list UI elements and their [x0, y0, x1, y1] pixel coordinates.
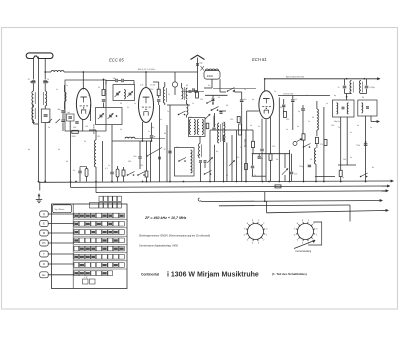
coil L11: [315, 148, 317, 182]
svg-text:40: 40: [276, 159, 278, 161]
coil L4: [51, 70, 64, 72]
svg-text:Gemeinsame Apparatebelag: UKW: Gemeinsame Apparatebelag: UKW: [139, 245, 179, 248]
resistor R8: [283, 111, 286, 117]
coil L6: [163, 82, 166, 105]
svg-text:Störfestgemessen: EM3/V (Klemm: Störfestgemessen: EM3/V (Klemmenspannung…: [139, 235, 210, 238]
coil tap bracket: [32, 102, 35, 123]
svg-text:1n: 1n: [192, 103, 194, 105]
component value labels: [56, 89, 374, 169]
svg-text:150: 150: [150, 89, 153, 91]
wire: [288, 150, 290, 182]
svg-text:80: 80: [362, 97, 364, 99]
svg-text:40: 40: [312, 117, 314, 119]
wire dense verticals: [210, 113, 246, 182]
capacitor C25b: [258, 154, 264, 160]
terminal T2 out: [371, 116, 380, 123]
wire: [145, 71, 147, 87]
wafer2 frame: [308, 222, 322, 245]
capacitor C30: [299, 165, 311, 168]
tube V1 ECC85a: [76, 88, 90, 119]
svg-text:120: 120: [272, 146, 275, 148]
capacitor C7b: [73, 122, 79, 129]
capacitor C1: [28, 79, 36, 83]
switch S2: [206, 100, 214, 104]
svg-text:7n: 7n: [338, 87, 340, 89]
wire T2 down: [365, 116, 367, 182]
wire T1 down: [340, 117, 342, 170]
capacitor C29: [301, 105, 305, 134]
svg-text:6p: 6p: [28, 149, 30, 151]
svg-text:Ph: Ph: [42, 241, 46, 245]
rotary switch wafer S11: [294, 220, 318, 244]
wire: [252, 154, 266, 182]
terminal: [391, 180, 394, 183]
coil small: [125, 137, 165, 138]
svg-text:ECC 85: ECC 85: [109, 58, 124, 63]
variable capacitor C10: [98, 113, 104, 119]
svg-text:5n: 5n: [240, 147, 242, 149]
svg-text:1n: 1n: [370, 127, 372, 129]
resistor R15b: [122, 167, 125, 182]
svg-text:8n: 8n: [372, 167, 374, 169]
capacitor C15: [150, 123, 157, 142]
resistor R3: [196, 92, 199, 98]
svg-text:130: 130: [97, 136, 100, 138]
node: [142, 140, 153, 142]
node: [346, 78, 366, 80]
svg-text:7k: 7k: [274, 91, 276, 93]
svg-text:3k: 3k: [306, 95, 308, 97]
terminal: [386, 189, 389, 192]
coil L7a: [190, 120, 191, 135]
svg-text:Sp.-Werte: Sp.-Werte: [55, 208, 66, 211]
wire: [204, 79, 220, 92]
coil L7c: [197, 120, 198, 135]
wire fm feed: [220, 91, 226, 93]
svg-text:Continental: Continental: [141, 272, 159, 276]
wire bus4: [198, 198, 381, 202]
svg-text:ECH 81: ECH 81: [252, 57, 267, 62]
table header box: [53, 205, 72, 213]
capacitor C30b: [338, 79, 352, 94]
label: [286, 76, 305, 79]
svg-text:9n: 9n: [350, 157, 352, 159]
svg-text:130: 130: [230, 119, 233, 121]
terminal boxes: [40, 211, 49, 278]
capacitor C7c: [102, 100, 105, 101]
capacitor row91: [183, 91, 204, 92]
svg-text:14p: 14p: [113, 78, 116, 80]
resistor R2: [157, 82, 160, 98]
svg-text:AM 0,52-1,6 MHz: AM 0,52-1,6 MHz: [138, 68, 155, 71]
box tuner 1: [113, 85, 135, 101]
label band: [138, 68, 155, 71]
table row wires: [74, 220, 127, 269]
label Ferneinstellung: [296, 250, 312, 253]
wire: [278, 98, 280, 182]
electrolytic C22: [239, 124, 242, 135]
svg-text:150: 150: [286, 119, 289, 121]
capacitor C5: [58, 109, 65, 112]
svg-text:1n: 1n: [286, 129, 288, 131]
coil L5: [65, 85, 67, 110]
wire osc row: [252, 153, 290, 155]
svg-text:7k: 7k: [168, 94, 170, 96]
resistor R12: [0, 0, 1, 1]
terminal: [377, 77, 380, 80]
coil L10: [317, 101, 319, 136]
ground table: [36, 194, 42, 203]
svg-text:1n: 1n: [108, 165, 110, 167]
wire: [34, 105, 39, 124]
capacitor C36: [134, 141, 142, 169]
terminal: [380, 199, 383, 202]
ratio detector box: [189, 118, 206, 137]
svg-text:40p: 40p: [58, 109, 61, 111]
label ZF: [144, 216, 187, 220]
wire: [34, 84, 46, 92]
svg-text:AFC/UKW: AFC/UKW: [93, 123, 96, 134]
wire row2: [102, 141, 104, 182]
vertical label ELC: [245, 138, 247, 147]
IF T1 primary coil: [350, 81, 353, 94]
resistor R1b: [102, 90, 105, 96]
electrolytic C34b: [116, 166, 119, 182]
capacitor C14b: [212, 116, 215, 130]
resistor R10: [315, 137, 318, 147]
wire antenna right stem: [44, 59, 46, 80]
rotary switch wafer S10: [244, 220, 268, 244]
svg-text:9n: 9n: [222, 123, 224, 125]
svg-text:120: 120: [200, 99, 203, 101]
capacitor C6 boxed: [67, 112, 75, 121]
capacitor C27: [282, 99, 285, 111]
electrolytic C33b: [80, 167, 88, 182]
switch S7: [303, 144, 311, 148]
antenna FM dipole: [191, 55, 205, 92]
svg-text:5n: 5n: [250, 125, 252, 127]
svg-text:20n: 20n: [134, 156, 137, 158]
svg-text:2p: 2p: [120, 129, 122, 131]
node dots bus: [44, 181, 366, 183]
coil L1: [32, 91, 35, 105]
capacitor C12: [106, 78, 134, 82]
svg-text:1n: 1n: [350, 132, 352, 134]
wire: [265, 120, 267, 154]
svg-text:2p: 2p: [208, 85, 210, 87]
capacitor C19: [240, 92, 247, 182]
wire antenna left stem: [33, 59, 35, 80]
svg-text:1n: 1n: [148, 131, 150, 133]
svg-text:0,5Mp: 0,5Mp: [370, 87, 375, 89]
terminal wires: [48, 214, 74, 275]
svg-text:ZF = 460 kHz + 10,7 MHz: ZF = 460 kHz + 10,7 MHz: [144, 216, 187, 220]
svg-text:4n: 4n: [297, 126, 299, 128]
diode D1: [172, 72, 177, 95]
svg-text:6p: 6p: [216, 151, 218, 153]
svg-text:7n: 7n: [167, 111, 169, 113]
box UKW unit: [65, 80, 106, 131]
svg-text:110: 110: [140, 165, 143, 167]
resistor R6b: [245, 130, 248, 182]
tube V3 ECH81: [259, 91, 274, 119]
table top cells: [90, 196, 122, 208]
capacitor C6b: [61, 120, 64, 131]
label line1: [139, 235, 210, 238]
capacitor C14: [193, 88, 194, 91]
svg-text:240Ω: 240Ω: [207, 75, 213, 78]
variable capacitor C8: [115, 91, 121, 97]
wire: [0, 0, 1, 1]
IF transformer T0: [182, 83, 188, 100]
svg-text:3k: 3k: [98, 87, 100, 89]
IF T2 primary coil: [359, 81, 362, 94]
svg-text:2p: 2p: [88, 95, 90, 97]
capacitor C4: [196, 63, 204, 66]
svg-text:170: 170: [320, 144, 323, 146]
svg-text:AM 12500 kHz/LW: AM 12500 kHz/LW: [286, 76, 305, 79]
svg-text:80: 80: [186, 85, 188, 87]
svg-text:100: 100: [73, 127, 76, 129]
capacitor C17b: [197, 155, 207, 162]
wire bus3: [96, 182, 388, 201]
switch S1: [178, 111, 186, 115]
capacitor C18: [212, 95, 215, 105]
table frame: [52, 204, 128, 289]
coil L12: [89, 130, 96, 182]
svg-text:i 1306 W Mirjam Musiktruhe: i 1306 W Mirjam Musiktruhe: [167, 272, 259, 279]
wire bus AM right: [264, 78, 380, 80]
coil L2: [32, 107, 35, 120]
wire bus6: [267, 201, 388, 213]
node: [38, 71, 47, 182]
label: [140, 85, 156, 87]
svg-text:140: 140: [331, 125, 334, 127]
coil L7d: [202, 120, 203, 135]
svg-text:40: 40: [120, 103, 122, 105]
svg-text:750p: 750p: [299, 166, 303, 168]
label subtitle: [272, 272, 307, 276]
svg-text:Ferneinstellung: Ferneinstellung: [296, 250, 312, 253]
svg-text:1n0: 1n0: [294, 174, 297, 176]
svg-text:80: 80: [164, 133, 166, 135]
svg-text:6n: 6n: [357, 125, 359, 127]
wire tube2 leads: [142, 122, 144, 141]
svg-text:40: 40: [226, 105, 228, 107]
varcap C26b: [282, 154, 288, 182]
antenna AM: [26, 53, 53, 59]
svg-text:160: 160: [343, 159, 346, 161]
test point: [293, 138, 303, 145]
IF T1 box: [333, 100, 355, 123]
label line2: [139, 245, 179, 248]
terminal: [387, 185, 390, 188]
node: [103, 79, 118, 117]
tube V2 ECC85b: [139, 88, 154, 123]
wire main ground bus: [39, 181, 393, 182]
box band switch: [175, 148, 195, 177]
capacitor C3 box: [41, 106, 50, 182]
varcap C23: [207, 157, 213, 163]
resistor R13: [339, 170, 342, 181]
switch S5: [211, 107, 219, 111]
coil L8 osc: [218, 123, 221, 143]
svg-text:7k: 7k: [254, 175, 256, 177]
wire: [247, 111, 259, 130]
switch S6: [235, 90, 242, 93]
wire: [205, 89, 256, 96]
wire verticals: [151, 105, 171, 182]
capacitor C2: [43, 79, 50, 83]
wire: [210, 129, 253, 131]
svg-text:5n: 5n: [73, 170, 75, 172]
svg-text:100: 100: [189, 117, 192, 119]
svg-text:5n: 5n: [326, 103, 328, 105]
svg-text:3n: 3n: [58, 149, 60, 151]
coil L14: [198, 136, 201, 158]
svg-text:7n: 7n: [308, 121, 310, 123]
svg-text:2p: 2p: [298, 111, 300, 113]
capacitor C26c: [290, 154, 297, 182]
wire: [82, 71, 84, 89]
resistor R16: [145, 141, 148, 182]
svg-text:⊥P: ⊥P: [84, 276, 88, 279]
svg-text:12,5M: 12,5M: [150, 85, 156, 87]
label title: [167, 272, 259, 279]
svg-text:180: 180: [128, 161, 131, 163]
resistor R5: [237, 117, 240, 123]
capacitor C17: [164, 149, 172, 153]
variable capacitor C9: [127, 91, 133, 97]
svg-text:0,1: 0,1: [295, 99, 298, 101]
svg-text:3k: 3k: [84, 141, 86, 143]
wire: [0, 0, 1, 1]
box tuner 2: [96, 108, 123, 125]
wire: [264, 79, 266, 91]
svg-text:5p0: 5p0: [67, 112, 70, 114]
svg-text:0,1: 0,1: [105, 168, 108, 170]
trimmer arrows: [48, 119, 61, 123]
wire: [153, 81, 159, 83]
capacitor C25c: [251, 154, 254, 177]
vertical label AFC/UKW: [93, 123, 96, 134]
svg-text:5n: 5n: [134, 103, 136, 105]
ground main: [39, 182, 41, 191]
resistor R17: [275, 185, 281, 188]
wire bus5: [219, 205, 350, 222]
svg-text:Q: Q: [43, 212, 45, 216]
wire top bus: [45, 71, 197, 73]
wire bus2: [70, 131, 389, 187]
table grid cells: [73, 204, 124, 289]
switch S8: [360, 173, 368, 177]
varcap C24: [229, 160, 235, 166]
svg-text:80: 80: [226, 175, 228, 177]
svg-text:5n: 5n: [48, 127, 50, 129]
IF T2 box: [358, 100, 377, 116]
resistor R1: [72, 130, 79, 138]
row components on bus: [0, 0, 1, 1]
label ECC 85: [109, 58, 124, 63]
wire: [315, 176, 335, 178]
svg-text:0,5L: 0,5L: [140, 85, 144, 87]
capacitor C28: [291, 96, 297, 131]
varcap C21: [205, 114, 211, 120]
svg-text:80: 80: [280, 107, 282, 109]
svg-text:170: 170: [176, 147, 179, 149]
label ECH 81: [252, 57, 267, 62]
label: [350, 132, 352, 134]
capacitor C33: [73, 169, 82, 182]
svg-text:10: 10: [164, 149, 166, 151]
capacitor C34: [105, 141, 114, 182]
svg-text:50p 5p: 50p 5p: [334, 121, 340, 123]
coil L7b: [194, 120, 195, 135]
svg-text:40: 40: [66, 161, 68, 163]
svg-text:2000: 2000: [72, 136, 76, 138]
resistor R7: [269, 117, 272, 182]
svg-text:3n: 3n: [214, 124, 216, 126]
capacitor C20: [220, 112, 223, 114]
balun 240 ohm: [201, 66, 221, 79]
svg-text:M: M: [43, 231, 45, 235]
resistor R6: [252, 130, 255, 154]
coil L9 osc: [222, 122, 225, 142]
terminal: [386, 209, 389, 212]
wire: [219, 110, 226, 112]
svg-text:10700 kHz: 10700 kHz: [283, 93, 293, 95]
wire T1 down2: [338, 117, 356, 165]
variable capacitor C11: [108, 113, 114, 119]
coil L7: [187, 100, 188, 118]
svg-text:7k: 7k: [338, 127, 340, 129]
switch S4: [227, 88, 235, 92]
capacitor C31: [361, 79, 375, 94]
capacitor C16: [158, 157, 161, 159]
svg-text:2p: 2p: [342, 177, 344, 179]
svg-text:3k: 3k: [218, 97, 220, 99]
wire: [167, 104, 190, 106]
svg-text:110: 110: [85, 126, 88, 128]
wire: [103, 79, 105, 107]
resistor R9: [302, 134, 305, 182]
wire: [63, 113, 70, 131]
svg-text:2n: 2n: [258, 126, 260, 128]
wire: [346, 94, 348, 101]
wire tube1 leads: [83, 104, 91, 131]
svg-text:6p: 6p: [252, 99, 254, 101]
resistor R3b: [206, 123, 209, 129]
coil L5b: [124, 90, 125, 100]
svg-text:5n: 5n: [244, 89, 246, 91]
resistor R11: [324, 140, 327, 146]
wire: [201, 163, 206, 182]
wire row: [112, 125, 152, 141]
arrow Ferneinstellung: [294, 240, 316, 249]
component value labels 2: [28, 85, 372, 179]
svg-text:40p: 40p: [197, 155, 200, 157]
svg-text:E: E: [43, 222, 45, 226]
table bottom cells: [83, 276, 96, 284]
svg-text:12n: 12n: [244, 99, 247, 101]
wire bus 10700: [278, 93, 330, 95]
svg-text:D: D: [43, 262, 45, 266]
svg-text:(1. Teil des Schaltbildes): (1. Teil des Schaltbildes): [272, 272, 307, 276]
svg-text:1n: 1n: [66, 85, 68, 87]
svg-text:2n: 2n: [160, 119, 162, 121]
capacitor C13: [157, 100, 160, 105]
switch S3: [204, 171, 212, 175]
